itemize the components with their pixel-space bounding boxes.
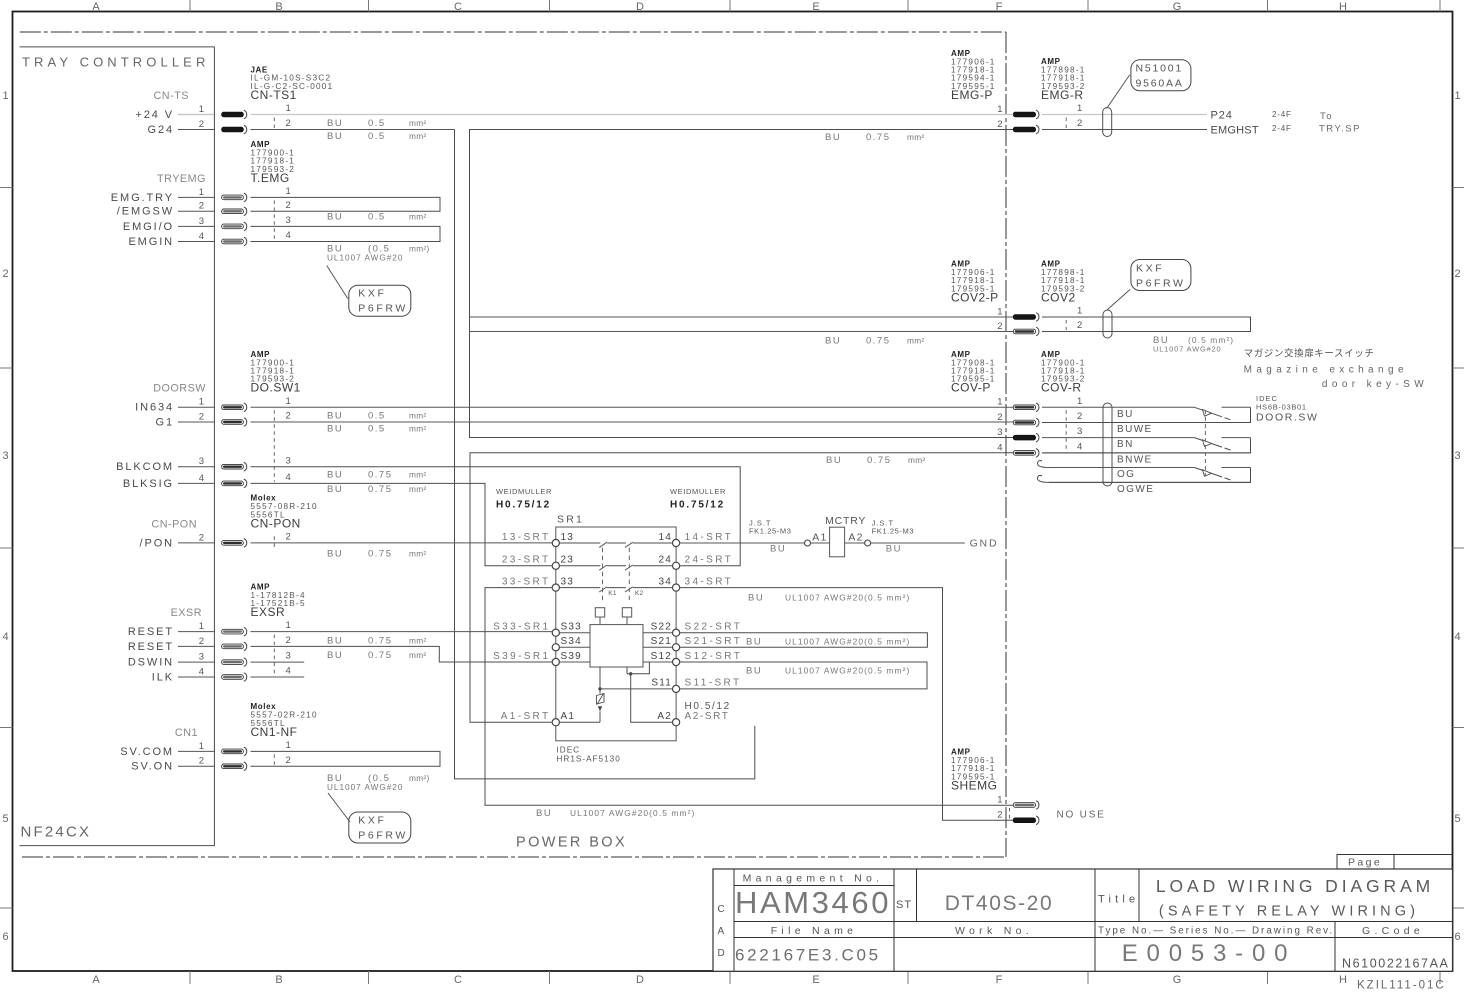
wire T.EMG pin3 loop [251,226,441,241]
wire chain branch to COV2-P pin1 [470,316,1014,318]
svg-text:ST: ST [896,899,912,911]
svg-text:3: 3 [199,652,204,663]
door switch wire resume 1 [1222,406,1251,408]
svg-text:mm²: mm² [409,470,427,480]
svg-text:0.75: 0.75 [866,336,891,347]
svg-text:2: 2 [286,200,291,211]
svg-text:SV.COM: SV.COM [120,746,174,758]
svg-text:mm²: mm² [907,132,925,142]
svg-text:23: 23 [561,555,575,566]
svg-text:0.75: 0.75 [368,636,393,647]
svg-text:0.5: 0.5 [368,424,386,435]
svg-text:E0053-00: E0053-00 [1122,940,1297,967]
svg-text:N51001: N51001 [1136,63,1184,75]
svg-text:F: F [996,1,1003,13]
svg-text:S21-SRT: S21-SRT [685,636,743,647]
wire /PON to SR1 terminal 13 [251,542,553,544]
svg-text:34: 34 [658,576,672,587]
title block horizontals [734,886,1453,938]
svg-text:S12-SRT: S12-SRT [685,651,743,662]
svg-text:mm²: mm² [409,118,427,128]
svg-text:POWER BOX: POWER BOX [516,835,627,851]
svg-text:BUWE: BUWE [1117,424,1153,435]
svg-text:2: 2 [997,119,1002,130]
BU 0.5 mm2 label CN-TS1 pin1 [327,118,427,129]
svg-text:4: 4 [286,230,291,241]
svg-text:G: G [1173,974,1182,986]
svg-text:BU: BU [1117,409,1134,420]
svg-text:CN-PON: CN-PON [151,518,197,530]
relay coil leg2 [626,667,628,674]
BU UL1007 label S22 loop [746,637,910,648]
wire RESET2 jog to S39 [251,646,553,662]
svg-text:/EMGSW: /EMGSW [117,206,174,218]
BU 0.75 mm2 label CN-PON [327,549,427,560]
svg-text:3: 3 [286,215,291,226]
svg-text:0.5: 0.5 [368,212,386,223]
svg-text:4: 4 [199,473,204,484]
BU 0.5 mm2 label CN-TS1 pin2 [327,131,427,142]
svg-text:ILK: ILK [152,671,174,683]
junction dot leg2 [629,672,632,675]
svg-text:HR1S-AF5130: HR1S-AF5130 [557,755,621,764]
svg-text:BU: BU [826,455,842,466]
name block EMG-P [951,49,996,102]
svg-text:UL1007 AWG#20: UL1007 AWG#20 [327,254,403,263]
wire 14-SRT to MCTRY A1 [680,542,805,544]
wire 34-SRT to SHEMG pin2 [680,588,1014,821]
svg-text:NF24CX: NF24CX [21,824,92,841]
svg-text:UL1007 AWG#20: UL1007 AWG#20 [327,783,403,792]
svg-text:13-SRT: 13-SRT [502,532,551,543]
wire EMG-P pin2 chain with corner [470,130,1014,438]
svg-text:BU: BU [327,650,343,661]
wire A2 to GND [871,542,965,544]
svg-text:EMGHST: EMGHST [1211,124,1259,136]
BU 0.75 mm2 label COV2-P wire [825,336,925,347]
svg-text:24-SRT: 24-SRT [685,555,734,566]
svg-text:mm²: mm² [409,636,427,646]
svg-text:1: 1 [997,306,1002,317]
svg-text:EXSR: EXSR [171,607,202,619]
SR1 wire tag labels [493,532,742,722]
svg-text:0.75: 0.75 [368,650,393,661]
svg-text:BNWE: BNWE [1117,454,1153,465]
svg-text:COV2: COV2 [1041,290,1076,304]
svg-text:CN-TS: CN-TS [154,90,190,102]
svg-text:B: B [275,1,282,13]
relay contact row 33-34 wire segments [556,587,676,589]
BU 0.5 mm2 label DO.SW1 pin2 [327,424,427,435]
svg-text:BN: BN [1117,439,1134,450]
svg-text:4: 4 [199,231,204,242]
wire +24V from CN-TS1 pin1 to EMG-P pin1 (light) [251,114,1014,116]
cable balloon KXF P6FRW (CN1) [349,812,411,843]
svg-text:H: H [1339,974,1347,986]
svg-text:To: To [1320,111,1333,122]
svg-text:BU: BU [746,665,762,676]
wire RESET1 to S33 [251,631,553,633]
connector pair COV2-P/COV2 (cover2 switch chain) [997,306,1082,336]
svg-text:SHEMG: SHEMG [951,778,998,792]
svg-text:mm²: mm² [409,650,427,660]
connector CN-TS1 (tray controller 24V feed) [135,90,290,136]
svg-text:RESET: RESET [128,641,174,653]
wire EMGHST from EMG-R [1042,129,1207,131]
svg-text:34-SRT: 34-SRT [685,576,734,587]
wire CN1 loop [251,751,441,766]
svg-text:EMG.TRY: EMG.TRY [111,192,174,204]
relay contact row 13-14 wire segments [556,542,676,544]
svg-text:1: 1 [997,794,1002,805]
svg-text:G1: G1 [156,416,174,428]
svg-text:K1: K1 [608,590,617,597]
svg-text:BLKSIG: BLKSIG [123,478,174,490]
svg-text:Page: Page [1348,857,1382,869]
wire P24 from EMG-R (light) [1042,114,1207,116]
svg-text:N610022167AA: N610022167AA [1342,957,1449,971]
CN-TS1 part codes and name [251,65,334,102]
terminal strip SR1 box [556,527,676,741]
svg-text:0.75: 0.75 [867,455,892,466]
svg-text:C: C [454,1,462,13]
svg-text:mm²: mm² [409,424,427,434]
wire IN634 to COV-P pin1 [251,406,1014,408]
CN-PON part codes and name [251,494,318,531]
svg-text:14-SRT: 14-SRT [685,532,734,543]
svg-text:D: D [718,948,725,959]
svg-text:EMGIN: EMGIN [128,236,174,248]
svg-text:1: 1 [199,104,204,115]
BU 0.5 mm2 label T.EMG [327,212,427,223]
svg-text:1: 1 [286,396,291,407]
mechanical link dashed DOOR.SW [1204,410,1206,476]
svg-text:BU: BU [327,118,343,129]
svg-text:2: 2 [199,119,204,130]
svg-text:33: 33 [561,576,575,587]
svg-text:C: C [454,974,462,986]
door switch wire resume 2 [1222,437,1251,439]
svg-text:KXF: KXF [1136,263,1164,275]
contact blade K2 row 33-34 [625,587,633,592]
door switch wire resume 3 [1222,467,1251,469]
cable marker capsule EMG [1103,108,1112,137]
svg-text:CN1: CN1 [175,727,198,739]
svg-text:BU: BU [746,637,762,648]
BU 0.75 mm2 label DO.SW1 pin3 [327,470,427,481]
IDEC label DOOR.SW [1256,394,1307,412]
svg-text:A1-SRT: A1-SRT [501,711,551,722]
contact blade K1 row 33-34 [599,587,607,592]
BU UL1007 label SHEMG wire [536,808,695,819]
coil square stub K2 [626,617,628,625]
wire G24 down V1 to relay A2 return [455,130,755,779]
svg-text:H0.75/12: H0.75/12 [670,500,725,511]
wire T.EMG pin1 loop [251,197,441,211]
svg-text:mm²): mm²) [409,244,430,254]
svg-text:mm²): mm²) [409,773,430,783]
svg-text:P6FRW: P6FRW [1136,278,1186,290]
svg-text:マガジン交換扉キースイッチ: マガジン交換扉キースイッチ [1244,348,1375,360]
svg-text:A2-SRT: A2-SRT [685,711,730,722]
name block COV2-P [951,260,999,305]
svg-text:E: E [812,1,819,13]
svg-text:(SAFETY RELAY WIRING): (SAFETY RELAY WIRING) [1159,904,1419,920]
wire relay to S12 [643,661,676,663]
svg-text:S39-SR1: S39-SR1 [493,651,550,662]
svg-text:S33: S33 [561,622,582,633]
wire COV-R hook (OGWE) [1049,481,1251,483]
hook symbol OG [1038,461,1050,468]
svg-text:KXF: KXF [358,815,386,827]
contact blade K1 row 23-24 [599,565,607,570]
svg-text:mm²: mm² [409,549,427,559]
svg-text:EMGI/O: EMGI/O [123,221,174,233]
svg-text:6: 6 [2,931,8,943]
svg-text:2: 2 [199,411,204,422]
wire S39 to relay [556,661,590,663]
svg-text:2: 2 [286,411,291,422]
svg-text:622167E3.C05: 622167E3.C05 [735,946,881,965]
svg-text:NO USE: NO USE [1057,810,1106,821]
svg-text:2: 2 [199,636,204,647]
svg-text:13: 13 [561,532,575,543]
svg-text:BU: BU [327,131,343,142]
relay coil terminal square K1 [595,608,604,617]
BU 0.75 mm2 label EMG-P wire [825,132,925,143]
svg-text:mm²: mm² [908,455,926,465]
svg-text:Magazine exchange: Magazine exchange [1244,365,1408,376]
mechanical link K2 dashed [628,548,630,602]
svg-text:door key-SW: door key-SW [1322,379,1428,390]
svg-text:/PON: /PON [140,537,175,549]
svg-text:2-4F: 2-4F [1272,110,1292,119]
svg-text:4: 4 [286,666,291,677]
balloon N51001 9560AA [1131,60,1191,91]
svg-text:2-4F: 2-4F [1272,124,1292,133]
svg-text:BU: BU [748,593,764,604]
svg-text:A: A [92,974,100,986]
leader to cable balloon KXF (CN1) [328,793,350,822]
svg-text:G24: G24 [148,124,175,136]
svg-text:BU: BU [825,336,841,347]
wire G24 from CN-TS1 pin2 to corner [251,129,455,131]
svg-text:BU: BU [536,808,552,819]
svg-text:1: 1 [286,103,291,114]
name block COV2 [1041,260,1086,305]
svg-text:S22: S22 [651,622,672,633]
svg-text:C: C [718,904,725,915]
svg-text:TRAY CONTROLLER: TRAY CONTROLLER [22,55,209,70]
svg-text:UL1007 AWG#20(0.5 mm²): UL1007 AWG#20(0.5 mm²) [785,637,910,647]
svg-text:0.75: 0.75 [866,132,891,143]
svg-text:UL1007 AWG#20(0.5 mm²): UL1007 AWG#20(0.5 mm²) [785,665,910,675]
svg-text:SV.ON: SV.ON [131,761,174,773]
wire relay to S21 [643,646,676,648]
wire S33 to relay [556,632,590,634]
svg-text:A2: A2 [657,711,672,722]
svg-text:0.5: 0.5 [368,411,386,422]
balloon KXF P6FRW right [1131,260,1191,291]
svg-text:H: H [1339,1,1347,13]
relay coil leg1 with varistor to A1 [559,667,600,722]
svg-text:1: 1 [199,741,204,752]
svg-text:2: 2 [1077,411,1082,422]
svg-text:1: 1 [1077,396,1082,407]
BU 0.75 mm2 label DO.SW1 pin4 [327,484,427,495]
name block COV-R [1041,350,1086,395]
wire MCTRY body to A2 [845,542,865,544]
svg-text:S22-SRT: S22-SRT [685,622,743,633]
svg-text:EMG-P: EMG-P [951,88,993,102]
door switch loop 3 [1049,468,1251,483]
svg-text:3: 3 [286,455,291,466]
svg-text:3: 3 [199,456,204,467]
svg-text:2: 2 [286,118,291,129]
wire loop S12 to S11 [680,662,927,689]
svg-text:WEIDMULLER: WEIDMULLER [670,487,726,496]
arrowhead on leg1 [598,706,602,711]
svg-text:3: 3 [199,216,204,227]
BU (0.5 mm2) label COV2 [1153,335,1234,346]
svg-text:BU: BU [327,411,343,422]
BU (0.5 mm2) label T.EMG cable [327,244,430,255]
svg-text:IDEC: IDEC [557,746,581,755]
wire A1 to MCTRY body [811,542,830,544]
terminal circle A2 MCTRY [865,540,871,546]
contact blade K2 row 23-24 [625,565,633,570]
svg-text:2: 2 [1077,320,1082,331]
svg-text:4: 4 [2,631,8,643]
BU UL1007 label 34 wire [748,593,910,604]
door switch loop 2 [1042,438,1251,453]
mechanical link K1 dashed [602,548,604,602]
wire COV-R pin2 (BUWE) [1042,422,1251,424]
wire COV-R pin4 (BNWE) [1042,452,1251,454]
wire relay to S22 [643,632,676,634]
svg-text:2: 2 [199,201,204,212]
connector pair EMG-P/EMG-R (E-stop chain) [997,103,1082,134]
svg-text:KZIL111-01C: KZIL111-01C [1357,980,1446,992]
svg-text:0.75: 0.75 [368,549,393,560]
svg-text:mm²: mm² [409,411,427,421]
svg-text:2: 2 [199,756,204,767]
cable balloon KXF P6FRW (T.EMG) [349,285,411,316]
svg-text:BU: BU [327,212,343,223]
svg-text:A: A [718,926,725,937]
TRAY CONTROLLER enclosure box [20,47,215,846]
svg-text:MCTRY: MCTRY [825,515,866,527]
svg-text:Title: Title [1098,894,1139,906]
coil square stub K1 [599,617,601,625]
leader to balloon KXF right [1107,290,1130,311]
svg-text:COV-R: COV-R [1041,381,1082,395]
svg-text:T.EMG: T.EMG [251,171,290,185]
svg-text:1: 1 [2,90,8,102]
svg-text:GND: GND [970,538,999,550]
hook symbol OGWE [1038,475,1050,482]
svg-text:3: 3 [1077,426,1082,437]
svg-text:mm²: mm² [409,131,427,141]
svg-text:+24 V: +24 V [135,109,174,121]
svg-text:HS6B-03B01: HS6B-03B01 [1256,403,1307,412]
svg-text:A1: A1 [812,532,827,544]
svg-text:OGWE: OGWE [1117,484,1154,495]
EXSR part codes and name [251,582,306,619]
svg-text:2: 2 [1454,268,1460,280]
connector T.EMG (tray EMG connector) [111,173,291,248]
svg-text:E: E [812,974,819,986]
T.EMG part codes and name [251,140,296,185]
wire BLKSIG run [251,483,553,565]
svg-text:4: 4 [286,472,291,483]
svg-text:TRYEMG: TRYEMG [157,173,206,185]
svg-text:2: 2 [2,268,8,280]
svg-text:6: 6 [1454,931,1460,943]
svg-text:mm²: mm² [409,484,427,494]
title block outline [713,869,1453,971]
BU UL1007 label S12 loop [746,665,910,676]
wire COV-P pin4 down to relay A1 [470,453,1013,722]
wire 33-SRT to SHEMG pin1 vertical [485,588,1013,806]
connector CN-PON (power-on connector) [140,518,291,549]
relay contact row 23-24 wire segments [556,565,676,567]
svg-text:1: 1 [1454,90,1460,102]
svg-text:WEIDMULLER: WEIDMULLER [496,487,552,496]
leader to balloon N51001 [1107,75,1130,109]
contact blade K1 row 13-14 [599,542,607,547]
svg-text:1: 1 [286,186,291,197]
wire G1 to COV-P pin2 [251,421,1014,423]
svg-text:B: B [275,974,282,986]
svg-text:OG: OG [1117,469,1135,480]
CN1-NF part codes and name [251,702,318,739]
svg-text:Management No.: Management No. [743,873,884,885]
wire COV-R pin1 (BU) [1042,406,1194,408]
svg-text:RESET: RESET [128,626,174,638]
svg-text:1: 1 [286,620,291,631]
svg-text:S12: S12 [651,651,672,662]
svg-text:1: 1 [199,397,204,408]
svg-text:DOOR.SW: DOOR.SW [1256,412,1319,424]
svg-text:H0.75/12: H0.75/12 [496,500,551,511]
wire COV-R hook (OG) [1049,467,1194,469]
svg-text:BU: BU [327,470,343,481]
svg-text:P6FRW: P6FRW [358,830,408,842]
svg-text:A: A [92,1,100,13]
svg-text:3: 3 [286,651,291,662]
DO.SW1 part codes and name [251,350,301,395]
svg-text:D: D [636,1,644,13]
svg-text:0.5: 0.5 [368,118,386,129]
To TRY.SP label [1319,111,1361,134]
relay IDEC HR1S-AF5130 body [590,625,643,667]
svg-text:14: 14 [658,532,672,543]
svg-text:CN1-NF: CN1-NF [251,725,298,739]
svg-text:Type No.— Series No.— Drawing: Type No.— Series No.— Drawing Rev. [1098,926,1334,937]
svg-text:S34: S34 [561,636,582,647]
svg-text:3: 3 [2,450,8,462]
machine boundary phantom line right vertical [1005,32,1007,857]
varistor symbol [597,694,605,705]
svg-text:2: 2 [286,532,291,543]
svg-text:D: D [636,974,644,986]
Page box [1337,855,1453,870]
svg-text:FK1.25-M3: FK1.25-M3 [749,526,792,535]
svg-text:DO.SW1: DO.SW1 [251,381,301,395]
svg-text:KXF: KXF [358,288,386,300]
svg-text:P24: P24 [1211,109,1233,121]
